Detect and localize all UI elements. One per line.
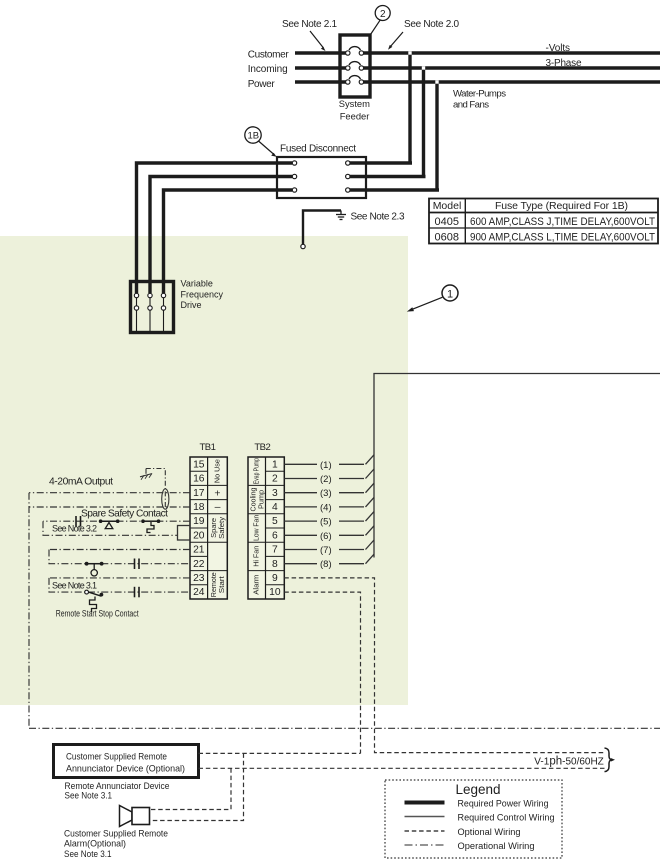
ground terminal circle (301, 244, 305, 248)
svg-text:0608: 0608 (435, 232, 459, 244)
svg-text:(7): (7) (320, 545, 332, 556)
svg-text:7: 7 (272, 545, 278, 556)
wire drop phase C vertical (435, 82, 438, 190)
note label See Note 2.1 (282, 19, 337, 51)
note label See Note 2.0 (388, 19, 459, 50)
wire bottom operational run dash-dot (29, 727, 660, 729)
junction node C (435, 80, 438, 83)
svg-text:Evap Pump: Evap Pump (252, 458, 261, 484)
wire TB1 pin 24 dash-dot with left loop (49, 578, 190, 592)
wire annunciator lower dashed to V bundle (199, 767, 606, 769)
brace for single phase feed (605, 748, 613, 772)
svg-text:Remote Start Stop Contact: Remote Start Stop Contact (56, 609, 139, 619)
svg-text:Model: Model (433, 200, 462, 212)
ground wire from disconnect (303, 211, 341, 245)
label Customer Supplied Remote Alarm (64, 828, 168, 859)
terminal block TB1 (190, 457, 227, 599)
breaker pole C (346, 76, 364, 85)
wire TB1 pin 23 dash-dot (49, 577, 190, 579)
TB2 alarm wire pin 9 dashed (284, 578, 605, 753)
svg-text:See Note 3.1: See Note 3.1 (65, 791, 113, 802)
svg-text:1: 1 (447, 288, 453, 300)
disconnect terminal left A (292, 161, 296, 165)
svg-text:(6): (6) (320, 531, 332, 542)
jumper box pins 19-20 (178, 526, 191, 541)
svg-text:900 AMP,CLASS L,TIME DELAY,600: 900 AMP,CLASS L,TIME DELAY,600VOLT (470, 232, 655, 244)
wire TB1 pin 19 dash-dot (43, 520, 190, 522)
svg-text:V-1ph-50/60HZ: V-1ph-50/60HZ (534, 756, 604, 768)
svg-text:Operational Wiring: Operational Wiring (458, 841, 535, 852)
svg-text:(5): (5) (320, 517, 332, 528)
wire annunciator to pin10 dashed (199, 752, 361, 754)
shield oval (162, 489, 169, 509)
svg-text:+: + (214, 487, 220, 499)
svg-text:See Note 3.1: See Note 3.1 (64, 849, 112, 860)
legend operational wiring (405, 841, 535, 852)
svg-text:Fused Disconnect: Fused Disconnect (280, 144, 356, 155)
load label Water-Pumps and Fans (453, 89, 506, 111)
svg-text:2: 2 (380, 9, 386, 20)
wire TB1 pin 21 dash-dot (49, 549, 190, 551)
svg-text:(3): (3) (320, 488, 332, 499)
TB2 output wire 7 (284, 540, 374, 556)
svg-text:Safety: Safety (217, 516, 226, 538)
svg-text:8: 8 (272, 559, 278, 570)
svg-text:Drive: Drive (181, 300, 202, 310)
label System Feeder (339, 98, 370, 122)
svg-text:4: 4 (272, 502, 278, 513)
contact row19 (76, 516, 81, 527)
svg-text:-Volts: -Volts (546, 43, 571, 54)
svg-text:23: 23 (193, 573, 205, 584)
VFD input terminals row 1 (134, 293, 165, 297)
TB2 output wire 6 (284, 526, 374, 542)
legend optional wiring (405, 827, 521, 838)
wire alarm drop B dashed (151, 768, 231, 809)
wire TB1 pin 20 dash-dot with left loop (43, 521, 178, 535)
brace arrow tip (611, 758, 615, 761)
label Remote Annunciator Device (65, 781, 170, 802)
svg-text:–: – (215, 501, 221, 513)
wire disconnect output C (349, 188, 439, 191)
wire drop phase B vertical (422, 68, 425, 177)
remote start switch row24 (85, 590, 104, 612)
wire disconnect output A (349, 161, 412, 164)
svg-text:Customer Supplied Remote: Customer Supplied Remote (66, 752, 167, 763)
TB2 label Cooling Pump (249, 487, 266, 511)
disconnect terminal right B (346, 174, 350, 178)
wire phase B horizontal (295, 66, 660, 69)
svg-text:0405: 0405 (435, 216, 459, 228)
label Variable Frequency Drive (181, 278, 224, 310)
callout circle 1 (407, 285, 458, 312)
svg-text:16: 16 (193, 474, 205, 485)
junction node A (408, 51, 411, 54)
contact row24 (135, 587, 140, 598)
contact row22 (135, 559, 140, 570)
svg-text:See Note 3.1: See Note 3.1 (52, 581, 97, 591)
svg-text:and Fans: and Fans (453, 100, 489, 111)
control bus line to right edge (374, 374, 660, 558)
svg-text:System: System (339, 98, 370, 109)
legend required power wiring (405, 798, 549, 809)
legend required control wiring (405, 813, 555, 824)
label Customer Supplied Remote Annunciator Device (66, 752, 185, 775)
svg-text:1: 1 (272, 459, 278, 470)
TB2 output wire 5 (284, 512, 374, 528)
svg-text:3-Phase: 3-Phase (546, 58, 582, 69)
chassis ground symbol (140, 469, 152, 480)
svg-text:5: 5 (272, 516, 278, 527)
svg-text:1B: 1B (248, 131, 260, 142)
alarm speaker symbol (120, 806, 150, 827)
svg-text:Low Fan: Low Fan (252, 515, 261, 541)
svg-text:Required Power Wiring: Required Power Wiring (458, 798, 549, 809)
breaker pole A (346, 47, 364, 56)
svg-text:TB2: TB2 (254, 442, 271, 453)
svg-text:Fuse Type (Required For 1B): Fuse Type (Required For 1B) (495, 200, 628, 212)
wire disconnect input A with drop to VFD (137, 163, 293, 293)
system feeder box (340, 35, 370, 97)
svg-text:Water-Pumps: Water-Pumps (453, 89, 506, 100)
svg-text:(1): (1) (320, 460, 332, 471)
svg-text:15: 15 (193, 459, 205, 470)
disconnect terminal right C (346, 188, 350, 192)
svg-text:6: 6 (272, 530, 278, 541)
wire disconnect input C with drop to VFD (164, 190, 293, 293)
TB1 label Spare Safety (209, 516, 226, 538)
svg-text:Alarm: Alarm (252, 575, 261, 595)
svg-text:See Note 2.1: See Note 2.1 (282, 19, 337, 30)
switch row22 (85, 562, 104, 576)
svg-text:4-20mA Output: 4-20mA Output (49, 477, 113, 488)
svg-text:17: 17 (193, 488, 205, 499)
breaker pole B (346, 62, 364, 71)
pressure switch row19 (141, 519, 160, 532)
TB2 output wire 4 (284, 497, 374, 513)
svg-text:Power: Power (248, 79, 276, 90)
junction node B (422, 66, 425, 69)
svg-text:Incoming: Incoming (248, 64, 288, 75)
svg-text:600 AMP,CLASS J,TIME DELAY,600: 600 AMP,CLASS J,TIME DELAY,600VOLT (470, 216, 655, 228)
svg-text:Start: Start (217, 576, 226, 593)
TB2 output wire 8 (284, 554, 374, 570)
fuse table (429, 199, 658, 244)
TB2 output wire 2 (284, 469, 374, 485)
svg-text:Frequency: Frequency (181, 289, 224, 299)
wire TB1 pin 18 dash-dot (29, 506, 190, 508)
wire TB1 pin 17 dash-dot (29, 492, 190, 494)
VFD box (131, 282, 174, 333)
legend box (385, 780, 562, 858)
wire left riser dash-dot (28, 493, 30, 729)
wire phase C horizontal (295, 80, 660, 83)
svg-text:10: 10 (269, 587, 281, 598)
wire TB1 pin 22 dash-dot with left loop (49, 550, 190, 564)
svg-text:18: 18 (193, 502, 205, 513)
wire drop phase A vertical (408, 53, 411, 163)
TB1 label Remote Start (209, 572, 226, 597)
shield drain wire dash-dot (146, 469, 165, 508)
VFD input terminals row 2 (134, 306, 165, 310)
wire phase A horizontal (295, 51, 660, 54)
svg-text:(4): (4) (320, 502, 332, 513)
svg-text:Customer: Customer (248, 50, 290, 61)
svg-text:Optional Wiring: Optional Wiring (458, 827, 521, 838)
svg-text:Spare Safety Contact: Spare Safety Contact (81, 509, 168, 520)
svg-text:Hi Fan: Hi Fan (252, 546, 261, 567)
svg-text:(2): (2) (320, 474, 332, 485)
svg-text:Variable: Variable (181, 278, 213, 288)
ground symbol (336, 211, 346, 220)
disconnect terminal left B (292, 174, 296, 178)
wire disconnect input B with drop to VFD (150, 177, 292, 294)
VFD internal wires (137, 298, 164, 331)
svg-text:TB1: TB1 (199, 442, 216, 453)
TB2 output wire 3 (284, 483, 374, 499)
callout circle 1B (245, 127, 277, 157)
svg-text:9: 9 (272, 573, 278, 584)
svg-text:Pump: Pump (256, 490, 265, 509)
svg-text:Required Control Wiring: Required Control Wiring (458, 813, 555, 824)
svg-text:2: 2 (272, 474, 278, 485)
disconnect terminal left C (292, 188, 296, 192)
disconnect terminal right A (346, 161, 350, 165)
TB2 alarm wire pin 10 dashed (284, 592, 360, 753)
svg-text:21: 21 (193, 545, 205, 556)
flow switch row19 (99, 519, 120, 528)
svg-text:22: 22 (193, 559, 205, 570)
svg-text:No Use: No Use (212, 459, 221, 483)
callout circle 2 (371, 6, 391, 35)
svg-text:See Note 3.2: See Note 3.2 (52, 524, 97, 534)
svg-text:See Note 2.3: See Note 2.3 (351, 212, 405, 223)
TB2 output wire 1 (284, 455, 374, 471)
terminal block TB2 (248, 457, 284, 599)
svg-text:See Note 2.0: See Note 2.0 (404, 19, 459, 30)
svg-text:Feeder: Feeder (340, 111, 370, 122)
wire disconnect output B (349, 175, 426, 178)
svg-text:Annunciator Device (Optional: Annunciator Device (Optional) (66, 764, 185, 775)
wire alarm drop A dashed (151, 753, 244, 820)
annunciator device box (54, 745, 199, 778)
svg-text:24: 24 (193, 587, 205, 598)
shaded unit enclosure (green area) (0, 236, 408, 705)
svg-text:(8): (8) (320, 559, 332, 570)
svg-text:20: 20 (193, 530, 205, 541)
svg-text:3: 3 (272, 488, 278, 499)
svg-text:Legend: Legend (456, 782, 501, 797)
svg-text:19: 19 (193, 516, 205, 527)
fused disconnect box (277, 157, 366, 198)
